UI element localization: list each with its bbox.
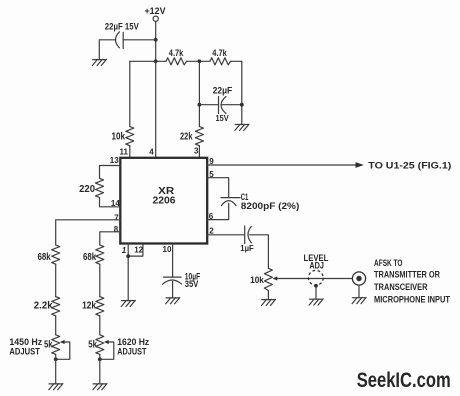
svg-text:SeekIC.com: SeekIC.com — [357, 369, 451, 392]
svg-text:1: 1 — [122, 246, 127, 255]
capacitor 10uF 35V — [163, 272, 201, 290]
connector J1 output jack — [352, 272, 365, 285]
svg-text:2.2k: 2.2k — [34, 301, 53, 312]
capacitor 22uF 15V (right) — [213, 86, 233, 123]
wire rail to pin 4 — [155, 61, 157, 158]
capacitor 22uF 15V (top left) — [105, 22, 140, 49]
label 1450 Hz ADJUST — [9, 337, 42, 356]
svg-text:TO U1-25 (FIG.1): TO U1-25 (FIG.1) — [368, 160, 451, 170]
resistor 68k (right) — [83, 245, 104, 264]
wire cap right to rail end and ground — [199, 61, 241, 124]
wire 10k pot to ground — [267, 291, 269, 300]
wire 68k to 12k — [99, 264, 101, 296]
svg-text:22µF: 22µF — [213, 86, 233, 96]
resistor 68k (left) — [38, 245, 60, 264]
wire pin 10 to capacitor — [172, 244, 174, 278]
ground (under pins 1-12) — [121, 300, 135, 306]
node junction pins 1-12 — [126, 254, 130, 258]
svg-text:5k: 5k — [88, 339, 97, 350]
resistor 2.2k — [34, 297, 60, 316]
wire 10k to pin 11 — [129, 146, 131, 158]
wire pin 2 to 1uF cap — [207, 234, 244, 236]
wire pin 5 to C1 — [207, 178, 229, 198]
svg-text:+12V: +12V — [145, 6, 166, 16]
ground (under connector) — [352, 297, 366, 303]
ground (under trimmer) — [309, 299, 323, 305]
wire pin 13 to 220 resistor — [100, 166, 121, 179]
label 1620 Hz ADJUST — [117, 337, 149, 356]
svg-text:11: 11 — [120, 147, 129, 156]
svg-text:10: 10 — [163, 245, 172, 254]
wire 5k right to ground — [99, 354, 101, 384]
svg-text:AFSK TO: AFSK TO — [374, 258, 403, 268]
svg-text:8200pF (2%): 8200pF (2%) — [241, 201, 299, 211]
svg-text:ADJ: ADJ — [309, 260, 324, 270]
node junction 5k right wiper — [98, 357, 102, 361]
wire junction to capacitor C bypass — [123, 39, 156, 41]
svg-text:MICROPHONE INPUT: MICROPHONE INPUT — [374, 295, 451, 305]
svg-text:4.7k: 4.7k — [169, 48, 184, 59]
svg-text:22k: 22k — [180, 132, 193, 143]
svg-text:68k: 68k — [38, 252, 52, 263]
svg-text:10k: 10k — [112, 132, 126, 143]
svg-text:TRANSMITTER OR: TRANSMITTER OR — [374, 270, 441, 280]
capacitor 1uF — [240, 226, 253, 253]
potentiometer 5k (1450 Hz) — [44, 335, 70, 360]
potentiometer 10k (level) — [250, 268, 277, 290]
node junction rail at 22k branch — [198, 59, 202, 63]
svg-text:6: 6 — [209, 212, 214, 221]
trimmer level adj dashed body — [308, 270, 323, 287]
wire 12k to 5k pot — [99, 316, 101, 335]
svg-text:8: 8 — [114, 225, 119, 234]
wire wiper to connector — [277, 278, 352, 280]
svg-text:15V: 15V — [216, 113, 229, 123]
wire 1uF to level pot — [250, 235, 269, 268]
wire 2.2k to 5k pot — [55, 316, 57, 335]
resistor 22k — [180, 127, 203, 146]
resistor 4.7k (right) — [210, 48, 231, 65]
resistor 4.7k (left) — [166, 48, 187, 65]
label AFSK output — [374, 258, 451, 305]
resistor 10k — [112, 127, 134, 146]
wire rail left end down to 10k — [129, 61, 131, 126]
label LEVEL ADJ — [304, 253, 329, 270]
svg-text:5k: 5k — [44, 339, 53, 350]
svg-text:12: 12 — [134, 245, 143, 254]
wire 5k left to ground — [55, 354, 57, 384]
wire 22k branch down — [198, 61, 200, 126]
svg-text:2206: 2206 — [153, 196, 176, 207]
node +12V terminal — [145, 6, 166, 21]
svg-text:1µF: 1µF — [240, 243, 253, 253]
svg-text:ADJUST: ADJUST — [9, 347, 40, 357]
ground (under 10k pot) — [262, 299, 276, 305]
svg-text:22µF 15V: 22µF 15V — [105, 22, 140, 33]
resistor 12k — [82, 297, 104, 316]
svg-text:10k: 10k — [250, 275, 264, 286]
svg-text:TRANSCEIVER: TRANSCEIVER — [374, 282, 428, 292]
node junction at capacitor tap — [154, 38, 158, 42]
wire pin 1 to ground — [127, 244, 129, 301]
wire +12V down to rail — [155, 21, 157, 61]
wire connector to ground — [358, 285, 360, 298]
svg-text:3: 3 — [194, 147, 199, 156]
wire pin 12 joins pin 1 — [128, 244, 143, 257]
svg-text:35V: 35V — [185, 279, 199, 289]
svg-text:ADJUST: ADJUST — [117, 347, 146, 357]
node junction 22uF cap right — [240, 103, 244, 107]
node junction 22uF cap left — [198, 103, 202, 107]
wire capacitor to ground — [172, 282, 174, 298]
wire C1 to pin 6 — [207, 203, 229, 219]
wire 220 to pin 14 — [100, 198, 121, 207]
svg-text:4: 4 — [149, 147, 154, 156]
wire capacitor to ground — [99, 40, 116, 60]
svg-text:14: 14 — [111, 199, 120, 208]
svg-text:7: 7 — [114, 213, 119, 222]
svg-text:13: 13 — [110, 156, 119, 165]
ground (under right 5k) — [93, 384, 107, 390]
ground (under right 22uF) — [235, 124, 249, 130]
svg-text:220: 220 — [79, 184, 95, 195]
node junction rail at +12V line — [154, 59, 158, 63]
potentiometer 5k (1620 Hz) — [88, 335, 114, 360]
wire 68k to 2.2k — [55, 264, 57, 296]
wire 22k to pin 3 — [198, 146, 200, 158]
node junction 5k left wiper — [54, 357, 58, 361]
svg-text:68k: 68k — [83, 252, 97, 263]
ground (top left) — [92, 59, 106, 65]
wire pin 8 branch — [100, 232, 121, 245]
op-amp U1 XR 2206 IC body — [120, 158, 207, 244]
ground (under left 5k) — [49, 384, 63, 390]
wire trimmer to ground — [315, 286, 317, 299]
wire pin 7 left branch — [56, 220, 121, 245]
ground (under 10uF) — [166, 298, 180, 304]
wire supply rail segments — [130, 60, 242, 62]
capacitor C1 8200pF — [221, 192, 299, 211]
svg-text:12k: 12k — [82, 301, 96, 312]
resistor 220 — [79, 178, 103, 197]
wire pin 9 output with arrow — [207, 162, 364, 168]
